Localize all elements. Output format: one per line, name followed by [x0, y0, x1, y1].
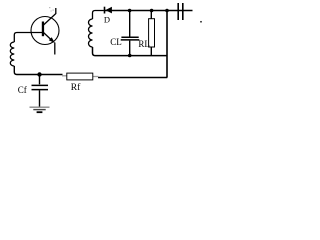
svg-text:Cf: Cf — [18, 85, 27, 95]
svg-text:Rf: Rf — [71, 82, 81, 93]
wire top rail — [105, 10, 193, 12]
label D — [104, 15, 110, 25]
label CL — [110, 37, 122, 47]
stray dot — [200, 21, 202, 23]
resistor RL — [149, 19, 155, 47]
artifact speckles — [49, 7, 54, 12]
resistor Rf leads — [62, 75, 99, 78]
node dot1 — [128, 9, 132, 13]
capacitor CL — [121, 37, 140, 40]
transistor Q1 emitter — [44, 33, 55, 44]
inductor L1 — [10, 42, 14, 66]
inductor L2 bottom lead — [93, 47, 168, 56]
wire RL top — [150, 11, 152, 20]
label Cf — [18, 85, 27, 95]
node dot3 — [165, 9, 169, 13]
node junction CL bottom — [128, 54, 132, 58]
node dot2 — [150, 9, 154, 13]
transistor Q1 collector — [44, 8, 56, 25]
node junction Cf — [37, 72, 41, 76]
svg-text:D: D — [104, 15, 110, 25]
svg-text:RL: RL — [138, 39, 150, 49]
wire bottom rail — [98, 77, 167, 79]
label Rf — [71, 82, 81, 93]
diode D — [104, 7, 112, 14]
transistor Q1 circle — [31, 17, 59, 45]
wire CL top — [129, 11, 131, 37]
capacitor Cf — [32, 85, 49, 89]
wire Cf top — [39, 75, 41, 85]
wire L1 bottom — [14, 66, 62, 75]
resistor Rf — [67, 73, 93, 80]
wire Cf bottom — [39, 90, 41, 106]
wire base lead — [14, 33, 42, 43]
svg-text:CL: CL — [110, 37, 122, 47]
capacitor C coupling — [178, 3, 183, 20]
wire emitter lead — [54, 43, 56, 55]
ground — [30, 107, 50, 112]
wire CL bottom — [129, 41, 131, 56]
transistor Q1 base bar — [42, 22, 44, 37]
wire right edge — [166, 11, 168, 78]
inductor L2 — [89, 19, 93, 47]
wire RL bottom — [150, 47, 152, 56]
inductor L2 top lead — [93, 11, 104, 20]
label RL — [138, 39, 150, 49]
